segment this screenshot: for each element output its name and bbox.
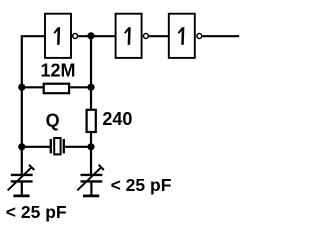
inversion bubble U1 output xyxy=(73,34,78,39)
svg-text:12M: 12M xyxy=(41,61,76,81)
junction dot: oscillator output node xyxy=(87,32,94,39)
inversion bubble U2 output xyxy=(143,34,148,39)
ground bar C2 xyxy=(83,194,99,197)
junction dot: R1 left node xyxy=(18,84,25,91)
trimmer capacitor C1 xyxy=(8,165,35,191)
wire: left rail to resistor R1 xyxy=(22,86,43,88)
wire: U1 output to U2 input xyxy=(78,35,115,37)
wire: U1 input feedback wire and left vertical rail xyxy=(22,36,45,174)
wire: crystal right plate to right rail xyxy=(64,146,91,148)
wire: U3 output to the right xyxy=(203,35,240,37)
svg-text:< 25 pF: < 25 pF xyxy=(111,175,172,195)
wire: output node down to resistor R2 xyxy=(90,36,92,110)
inverter U2 xyxy=(116,14,142,58)
wire: resistor R2 to crystal node xyxy=(90,132,92,147)
wire: crystal node down to right trimmer C2 xyxy=(90,147,92,174)
junction dot: crystal right node xyxy=(87,143,94,150)
wire: left rail to crystal left plate xyxy=(22,146,51,148)
inversion bubble U3 output xyxy=(197,34,202,39)
wire: C2 to ground xyxy=(90,181,92,195)
inverter U3 xyxy=(169,14,195,58)
junction dot: R1 right node xyxy=(87,84,94,91)
crystal Q xyxy=(51,138,64,154)
wire: U2 output to U3 input xyxy=(149,35,169,37)
ground bar C1 xyxy=(13,194,29,197)
junction dot: crystal left node xyxy=(18,143,25,150)
resistor R2 body xyxy=(87,110,96,132)
resistor R1 body xyxy=(44,84,69,94)
trimmer capacitor C2 xyxy=(77,165,104,191)
svg-text:Q: Q xyxy=(46,110,60,130)
svg-text:240: 240 xyxy=(102,109,132,129)
svg-text:< 25 pF: < 25 pF xyxy=(6,202,67,222)
wire: resistor R1 to right rail xyxy=(70,86,91,88)
inverter U1 xyxy=(45,14,71,58)
wire: C1 to ground xyxy=(21,181,23,195)
